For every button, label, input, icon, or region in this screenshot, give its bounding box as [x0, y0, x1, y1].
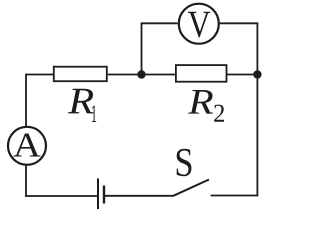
- wire node to R2: [142, 74, 176, 76]
- node junction left: [137, 70, 145, 78]
- wire bottom left: [25, 195, 98, 197]
- wire R2 to node right: [227, 74, 258, 76]
- resistor R2: [176, 65, 227, 82]
- switch S: [173, 180, 209, 196]
- wire bottom right: [211, 195, 259, 197]
- wire right vertical: [256, 23, 258, 196]
- node junction right: [253, 70, 261, 78]
- wire voltmeter left: [142, 23, 178, 74]
- wire voltmeter right: [220, 22, 259, 24]
- resistor R1: [54, 67, 107, 82]
- wire bottom middle: [104, 195, 174, 197]
- wire top-left horizontal: [26, 74, 53, 76]
- label R2: [188, 90, 224, 122]
- wire left vertical lower: [25, 166, 27, 197]
- wire left vertical upper: [25, 74, 27, 127]
- label S: [177, 149, 192, 176]
- ammeter A: [8, 127, 46, 165]
- battery: [98, 179, 104, 210]
- wire R1 to node: [108, 74, 142, 76]
- label R1: [68, 89, 96, 122]
- voltmeter V: [179, 4, 219, 44]
